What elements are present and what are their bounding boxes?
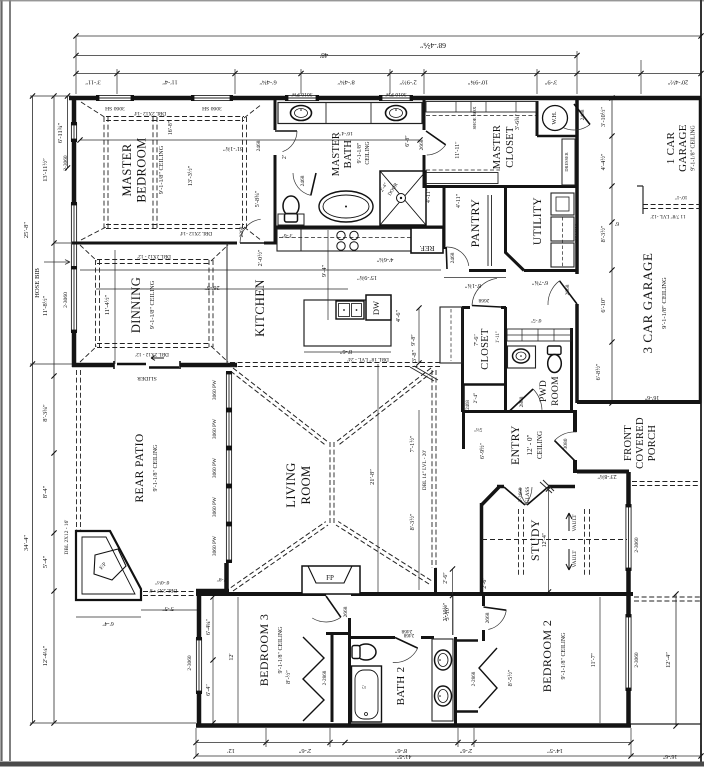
dim ticks top segments <box>73 71 703 76</box>
svg-text:16′-4″: 16′-4″ <box>338 130 352 136</box>
entry front wall upper <box>573 410 577 432</box>
svg-text:13′-11½″: 13′-11½″ <box>42 158 49 182</box>
small closet west wall <box>462 384 465 412</box>
svg-text:CEILING: CEILING <box>536 431 544 459</box>
svg-text:9′-1-1/8″ CEILING: 9′-1-1/8″ CEILING <box>691 125 697 170</box>
svg-text:3080: 3080 <box>563 438 569 449</box>
study vault arrow 1 <box>566 513 572 531</box>
svg-text:3060 PW: 3060 PW <box>212 457 218 478</box>
door 2668 bedroom2 <box>484 607 507 610</box>
master tray ceiling top <box>106 117 244 121</box>
svg-text:9′-1-1/8″ CEILING: 9′-1-1/8″ CEILING <box>158 145 165 194</box>
dim line bd3 <box>237 597 239 723</box>
dim ticks 48ft <box>73 53 579 58</box>
dinning tray corner ties <box>80 245 228 362</box>
dinning south wall <box>72 363 237 368</box>
svg-text:3′-11″: 3′-11″ <box>85 79 101 86</box>
svg-text:6′-8½″: 6′-8½″ <box>595 363 602 380</box>
svg-text:1′-11″: 1′-11″ <box>496 331 501 343</box>
dim ticks bottom rooms <box>193 740 633 745</box>
bedroom2 east wall <box>626 472 631 726</box>
study west wall <box>480 503 484 596</box>
svg-text:DBL 2X12 -14′: DBL 2X12 -14′ <box>134 110 166 116</box>
patio post <box>224 563 229 594</box>
svg-text:2868: 2868 <box>565 284 571 295</box>
patio corner fireplace <box>76 531 141 600</box>
bath2 west wall <box>348 618 351 726</box>
svg-text:BEDROOM: BEDROOM <box>135 137 149 202</box>
door 3080 front entry <box>555 441 576 462</box>
svg-text:2-3060: 2-3060 <box>63 155 69 171</box>
svg-text:8′-6″: 8′-6″ <box>394 747 407 754</box>
svg-text:10′-1″: 10′-1″ <box>675 194 688 200</box>
study north wall a <box>497 485 504 489</box>
svg-text:9′-1-1/8″: 9′-1-1/8″ <box>357 142 363 163</box>
patio jog wall <box>196 589 229 594</box>
dishwasher <box>366 295 391 320</box>
svg-text:ROOM: ROOM <box>551 376 561 406</box>
svg-text:6′-8″: 6′-8″ <box>405 135 411 147</box>
hatch study corner <box>540 480 554 493</box>
svg-text:2668: 2668 <box>485 612 491 623</box>
dim ticks bench <box>416 305 421 365</box>
svg-text:11′-7″: 11′-7″ <box>591 652 597 667</box>
svg-text:DBL 14″ LVL - 20′: DBL 14″ LVL - 20′ <box>422 450 428 490</box>
porch roof dash lower <box>634 597 700 601</box>
dim line living SE <box>452 569 454 635</box>
wh closet south wall <box>537 135 576 138</box>
bedroom2 west wall upper <box>482 594 485 606</box>
wall master bedroom / bath upper <box>274 98 277 130</box>
kitchen north counter <box>277 229 443 251</box>
svg-text:16′-6″: 16′-6″ <box>644 394 659 400</box>
svg-text:FRONT: FRONT <box>623 425 634 461</box>
svg-text:MASTER: MASTER <box>492 125 503 169</box>
master bedroom south wall stub <box>264 242 277 245</box>
svg-text:25′-8″: 25′-8″ <box>23 222 30 239</box>
svg-text:CEILING: CEILING <box>365 141 371 164</box>
window 3010 PW master bath 1 <box>286 95 318 101</box>
window 3060 SH master bedroom 2 <box>192 95 232 101</box>
window 2-3060 bedroom3 west <box>196 638 202 693</box>
svg-text:2-2868: 2-2868 <box>471 671 477 686</box>
dim line left inner <box>53 96 55 723</box>
svg-text:5′-4″: 5′-4″ <box>42 555 49 568</box>
master tray ceiling bottom <box>106 225 244 229</box>
svg-text:2′-4″: 2′-4″ <box>473 393 479 404</box>
svg-text:4′-11″: 4′-11″ <box>426 188 432 203</box>
svg-text:12′ - 0″: 12′ - 0″ <box>526 435 534 456</box>
svg-text:8′-½″: 8′-½″ <box>285 670 292 684</box>
dim ticks left small <box>65 93 70 170</box>
svg-text:5′: 5′ <box>362 685 368 689</box>
dim ticks bedroom2 right <box>673 591 678 728</box>
dim line living right <box>418 410 420 590</box>
svg-text:11 7/8″ LVL -12′: 11 7/8″ LVL -12′ <box>650 213 685 219</box>
svg-text:16′-8″: 16′-8″ <box>168 120 174 135</box>
living hip tl2 <box>231 371 326 445</box>
svg-text:3′-10½″: 3′-10½″ <box>600 107 607 127</box>
window 2-3060 dinning west <box>71 203 77 332</box>
window 3060 SH master bedroom 1 <box>97 95 133 101</box>
svg-text:2′-6″: 2′-6″ <box>482 577 488 589</box>
page bottom dark band <box>0 762 704 767</box>
svg-text:6′-4″: 6′-4″ <box>206 684 212 696</box>
porch-entry jog wall <box>577 470 629 474</box>
hall bench <box>440 307 462 363</box>
dresser by wh <box>562 139 575 185</box>
exterior wall left (master/dinning) <box>72 96 77 367</box>
door 2868 pwd <box>509 389 533 412</box>
svg-text:3 CAR GARAGE: 3 CAR GARAGE <box>640 252 655 353</box>
svg-text:STUDY: STUDY <box>528 519 542 561</box>
svg-text:2668: 2668 <box>478 297 489 303</box>
svg-text:23′-8¾″: 23′-8¾″ <box>597 473 617 480</box>
svg-text:2868: 2868 <box>519 396 525 407</box>
svg-text:16′-6″: 16′-6″ <box>662 753 677 759</box>
window 3060 PW living west 5 <box>226 524 232 562</box>
kitchen cooktop <box>337 231 345 239</box>
door 2468 water closet <box>311 173 316 195</box>
kitchen counter dashed <box>279 237 443 239</box>
svg-text:DRESSER: DRESSER <box>564 152 569 171</box>
svg-text:21′-8″: 21′-8″ <box>369 469 376 485</box>
svg-text:FP: FP <box>326 574 334 582</box>
dim ticks bottom overall <box>193 753 703 758</box>
dim ticks study <box>546 486 551 594</box>
dinning tray right <box>209 260 213 347</box>
closet shelf dash top <box>426 115 536 117</box>
dim line bench <box>418 308 420 363</box>
svg-text:2-2668: 2-2668 <box>518 487 524 502</box>
window 3060 PW living west 3 <box>226 448 232 486</box>
living hip tr <box>336 368 431 442</box>
svg-text:2′-6″: 2′-6″ <box>443 572 449 584</box>
garage opening header <box>643 205 700 209</box>
svg-text:ENTRY: ENTRY <box>510 425 522 465</box>
svg-text:6′: 6′ <box>614 220 619 226</box>
bath2 tub <box>352 666 382 722</box>
svg-text:GLASS: GLASS <box>525 487 531 504</box>
svg-text:2-2868: 2-2868 <box>322 670 328 685</box>
svg-text:7′-6″: 7′-6″ <box>474 334 480 346</box>
svg-text:LIVING: LIVING <box>284 462 298 507</box>
svg-text:2-3060: 2-3060 <box>634 652 640 668</box>
page top edge line <box>0 0 704 2</box>
living hip tl <box>233 368 328 442</box>
wall master bath / closet upper <box>423 98 426 130</box>
bath2 toilet <box>356 644 376 660</box>
svg-text:11′-8½″: 11′-8½″ <box>42 296 49 317</box>
svg-text:2468: 2468 <box>256 140 262 151</box>
svg-text:UTILITY: UTILITY <box>532 197 544 245</box>
dim line 48ft <box>76 55 577 57</box>
svg-text:8′-4″: 8′-4″ <box>42 485 49 498</box>
closet shelf row top <box>426 102 536 113</box>
dim line bd3 west <box>212 597 214 723</box>
svg-text:10′-9¾″: 10′-9¾″ <box>467 79 488 86</box>
pantry east wall <box>504 186 507 253</box>
svg-text:41′-5″: 41′-5″ <box>396 753 411 759</box>
svg-text:8′-5½″: 8′-5½″ <box>507 669 514 686</box>
door 2668 bedroom3 hall <box>326 596 341 617</box>
dim extension lines top <box>76 36 701 94</box>
window 3060 PW living west 1 <box>226 372 232 410</box>
svg-text:3′-8″: 3′-8″ <box>411 349 418 362</box>
porch bottom edge <box>631 723 701 725</box>
dim line bottom overall <box>196 755 701 757</box>
svg-text:8′-3½″: 8′-3½″ <box>600 225 607 242</box>
garage west wall lower <box>575 304 579 403</box>
dim line island <box>304 351 391 353</box>
svg-text:5′-5″: 5′-5″ <box>162 605 174 611</box>
dim line study <box>548 489 550 592</box>
window 2-3060 bedroom2 east lower <box>626 615 632 690</box>
svg-text:13′-3½″: 13′-3½″ <box>187 165 194 186</box>
kitchen north wall <box>275 226 445 229</box>
svg-text:26′-5″: 26′-5″ <box>204 284 220 291</box>
svg-text:2468: 2468 <box>466 400 471 410</box>
door 2868 hall-garage <box>560 281 578 304</box>
svg-text:9′-1-1/8″ CEILING: 9′-1-1/8″ CEILING <box>661 277 668 329</box>
svg-text:3060 PW: 3060 PW <box>212 535 218 556</box>
svg-text:11′-4½″: 11′-4½″ <box>104 295 111 316</box>
svg-text:2′: 2′ <box>282 155 288 159</box>
living hip bl <box>233 525 328 591</box>
kitchen small cabinet <box>277 229 301 251</box>
pwd vanity <box>508 346 536 368</box>
entry north wall / pwd south <box>462 410 576 413</box>
svg-text:12′: 12′ <box>227 747 235 754</box>
dinning beam arrow <box>151 356 164 361</box>
porch roof dash upper <box>632 482 700 486</box>
svg-text:COVERED: COVERED <box>635 417 646 469</box>
svg-text:3060 PW: 3060 PW <box>212 418 218 439</box>
dim ticks living SE <box>450 566 455 598</box>
svg-text:2468: 2468 <box>580 109 586 120</box>
kitchen-dinning floor edge <box>226 243 228 364</box>
door 2668 closet top <box>472 306 501 308</box>
garage west wall upper <box>575 98 579 274</box>
svg-text:2868: 2868 <box>239 226 245 237</box>
utility dash <box>562 217 564 267</box>
dim ticks bd3 west <box>210 594 215 725</box>
bath2 north wall a <box>351 636 395 639</box>
svg-text:DBL 2X12 - 12′: DBL 2X12 - 12′ <box>135 351 169 357</box>
svg-text:12′-4″: 12′-4″ <box>665 652 672 668</box>
svg-text:BATH 2: BATH 2 <box>395 667 407 706</box>
dim line left small <box>67 96 69 168</box>
svg-text:8′-6″: 8′-6″ <box>339 348 352 355</box>
svg-text:6′-5″: 6′-5″ <box>530 317 542 323</box>
dim line pantry <box>444 277 506 279</box>
dim ticks right col <box>609 95 614 405</box>
dim extension bottom <box>196 728 701 757</box>
dim line patio fp <box>76 616 141 618</box>
refrigerator <box>411 228 443 253</box>
svg-text:9′-4″: 9′-4″ <box>321 264 328 277</box>
patio south dashes <box>143 592 197 596</box>
living fireplace <box>302 566 360 594</box>
svg-text:GARAGE: GARAGE <box>677 124 689 172</box>
exterior wall top <box>69 96 701 101</box>
bedroom2 closet top wall <box>455 639 478 642</box>
dim ticks 68ft <box>73 33 703 38</box>
svg-text:3060 SH: 3060 SH <box>202 105 222 111</box>
svg-text:3′-9″: 3′-9″ <box>544 79 557 86</box>
window 3060 PW living west 2 <box>226 410 232 448</box>
hose bib leader arrow <box>44 260 70 265</box>
study vault strip 1 <box>519 509 524 576</box>
svg-text:5½″: 5½″ <box>474 426 483 433</box>
window 2-3060 bedroom2 east upper <box>626 505 632 570</box>
window 3060 PW living west 4 <box>226 486 232 524</box>
pantry south wall <box>469 269 506 272</box>
dim line bottom rooms <box>196 742 631 744</box>
kitchen / pantry wall <box>443 186 446 249</box>
svg-text:6′-10″: 6′-10″ <box>600 297 607 313</box>
dim line patio fp2 <box>141 609 197 611</box>
svg-text:W.H.: W.H. <box>551 111 558 125</box>
svg-text:48′: 48′ <box>319 51 328 59</box>
svg-text:3′-6″: 3′-6″ <box>281 232 293 238</box>
svg-text:11′-11″: 11′-11″ <box>455 141 461 159</box>
svg-text:2′-0½″: 2′-0½″ <box>257 249 264 266</box>
bottom wall bedrooms <box>196 723 631 728</box>
dim line overall 68ft <box>76 35 701 37</box>
svg-text:3010 PW: 3010 PW <box>385 91 407 97</box>
svg-text:4′-6¾″: 4′-6¾″ <box>376 256 393 263</box>
svg-text:DBL 18″ LVL - 24′: DBL 18″ LVL - 24′ <box>347 356 389 362</box>
svg-text:SHOE BOX: SHOE BOX <box>472 106 477 130</box>
svg-text:VAULT: VAULT <box>572 550 578 568</box>
kitchen island <box>304 300 391 346</box>
svg-text:31′-1¾″: 31′-1¾″ <box>223 145 243 152</box>
living/bedroom wall south <box>196 592 326 596</box>
svg-text:6′-4¾″: 6′-4¾″ <box>259 79 277 86</box>
door 2468 master bedroom-bath <box>275 130 297 132</box>
exterior wall garage east <box>699 98 702 403</box>
closet dresser bottom <box>426 173 498 184</box>
svg-text:30X WALL: 30X WALL <box>574 223 579 243</box>
master bath low cabinet <box>278 214 304 225</box>
entry west wall stub <box>462 411 465 449</box>
master bath vanity <box>278 103 422 124</box>
svg-text:2668: 2668 <box>419 139 425 150</box>
svg-text:6′-11¾″: 6′-11¾″ <box>57 123 64 144</box>
svg-text:REAR PATIO: REAR PATIO <box>134 433 146 502</box>
dim line living <box>377 364 379 592</box>
door 2468 bath2 <box>395 638 418 649</box>
hall / closet north wall b <box>501 306 506 309</box>
svg-text:68′-4⅖″: 68′-4⅖″ <box>420 41 446 50</box>
dim ticks left inner <box>51 93 56 725</box>
hall bench dash <box>450 309 452 361</box>
svg-text:2-3060: 2-3060 <box>63 292 69 308</box>
svg-text:3010 PW: 3010 PW <box>291 91 313 97</box>
dinning tray bottom <box>97 344 211 348</box>
svg-text:8′-1¾″: 8′-1¾″ <box>464 282 481 289</box>
svg-text:4′-6″: 4′-6″ <box>395 309 402 322</box>
study vault arrow 2 <box>566 549 572 570</box>
living ridge <box>330 442 334 525</box>
svg-text:5′-8¾″: 5′-8¾″ <box>254 190 261 207</box>
closet south wall <box>463 383 506 386</box>
dim line left overall <box>32 96 34 723</box>
svg-text:2′-6″: 2′-6″ <box>298 747 311 754</box>
svg-text:8′-3¾″: 8′-3¾″ <box>42 404 49 422</box>
master shower <box>380 171 426 225</box>
svg-text:BEDROOM 2: BEDROOM 2 <box>540 620 554 693</box>
garage opening jambs <box>637 186 643 214</box>
svg-text:2468: 2468 <box>450 252 456 263</box>
living beam top <box>230 363 440 367</box>
bedroom3 west wall <box>197 591 202 726</box>
svg-text:6′-4¼″: 6′-4¼″ <box>206 618 212 635</box>
island sink <box>336 301 364 319</box>
svg-text:DW: DW <box>371 301 381 315</box>
svg-text:12′-4″: 12′-4″ <box>542 532 548 547</box>
svg-text:PWD: PWD <box>539 380 549 402</box>
living beam right <box>432 370 436 568</box>
master bath sink 1 <box>291 106 312 121</box>
study north wall b <box>548 485 575 489</box>
svg-text:PANTRY: PANTRY <box>468 199 482 248</box>
page border line right <box>700 0 702 762</box>
svg-text:6′-4″: 6′-4″ <box>102 620 114 626</box>
closet east wall <box>504 307 507 412</box>
hall / closet north wall a <box>462 306 470 309</box>
svg-text:DBL 2X12 - 16′: DBL 2X12 - 16′ <box>64 520 70 555</box>
bedroom3 closet east wall <box>331 634 334 722</box>
page border line far-left <box>0 0 2 761</box>
living hip br2 <box>338 522 431 581</box>
utility south wall <box>524 269 577 272</box>
living hip bl2 <box>231 522 326 588</box>
dim ticks master width <box>77 137 422 142</box>
dim line kitchen v <box>327 230 329 320</box>
closet shelf dash bottom <box>426 169 500 171</box>
closet west wall <box>461 307 464 412</box>
study center dash <box>482 539 627 541</box>
svg-text:4′-4½″: 4′-4½″ <box>600 153 607 170</box>
svg-text:9′-1-1/8″ CEILING: 9′-1-1/8″ CEILING <box>149 280 156 329</box>
svg-text:14′-5″: 14′-5″ <box>547 747 563 754</box>
dim extension left <box>30 96 196 723</box>
bifold doors 2-2868 bedroom3 closet <box>303 637 324 721</box>
pwd toilet <box>548 346 562 355</box>
dinning tray left <box>96 260 100 347</box>
hatch kitchen hall <box>410 366 438 381</box>
dim line bd2 <box>599 597 601 723</box>
pwd sink <box>513 349 530 363</box>
svg-text:12′: 12′ <box>229 653 235 661</box>
svg-text:VAULT: VAULT <box>572 514 578 532</box>
master bath sink 2 <box>386 106 407 121</box>
svg-text:2′-6″: 2′-6″ <box>459 747 472 754</box>
svg-text:3′-6¾″: 3′-6¾″ <box>514 113 521 130</box>
study corner diagonal <box>482 487 500 505</box>
svg-text:DBL 2X12 -14′: DBL 2X12 -14′ <box>180 230 212 236</box>
page border line left <box>9 0 11 761</box>
master tray ceiling left <box>104 117 108 228</box>
window 3010 PW master bath 2 <box>380 95 412 101</box>
wh water heater <box>543 106 568 131</box>
bath2 north wall b <box>421 636 434 639</box>
svg-text:20′-4½″: 20′-4½″ <box>667 79 688 86</box>
svg-text:4′-11″: 4′-11″ <box>456 193 462 208</box>
svg-text:MASTER: MASTER <box>331 132 342 176</box>
